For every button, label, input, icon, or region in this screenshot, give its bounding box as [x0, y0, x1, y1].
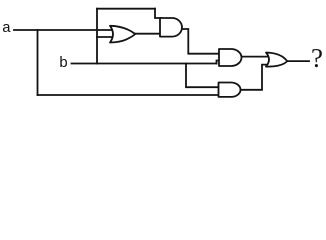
wire: input a horizontal run into OR1 upper input — [14, 29, 113, 31]
wire: branch from a down the left side — [37, 30, 39, 95]
wire: stub from riser into OR1 lower input — [97, 36, 113, 38]
svg-text:a: a — [2, 20, 11, 37]
wire: OR1 output to AND1 lower input — [135, 33, 160, 35]
wire: AND3 output up to OR3 lower input — [240, 65, 268, 90]
wire: jog from b up into AND2 lower input — [217, 61, 221, 64]
svg-text:?: ? — [311, 43, 323, 73]
wire: bottom rail from a-branch to AND3 lower input — [38, 94, 220, 96]
wire: top rail — [97, 8, 155, 10]
wire: drop from top rail into AND1 upper input — [155, 9, 161, 18]
wire: AND1 output down to AND2 upper input — [182, 29, 220, 54]
AND gate AND3 — [219, 83, 241, 97]
wire: tap from b down to AND3 upper input — [186, 64, 219, 88]
AND gate AND2 — [219, 49, 242, 66]
svg-text:b: b — [59, 55, 68, 72]
wire: input b horizontal run — [72, 63, 217, 65]
wire: riser from b at x=97 up to top rail — [96, 9, 98, 64]
wire: OR3 output to ? — [287, 60, 309, 62]
OR gate OR1 — [110, 26, 135, 43]
OR gate OR3 (output gate) — [266, 53, 287, 67]
AND gate AND1 — [160, 18, 182, 37]
wire: AND2 output to OR3 upper input — [241, 56, 268, 58]
